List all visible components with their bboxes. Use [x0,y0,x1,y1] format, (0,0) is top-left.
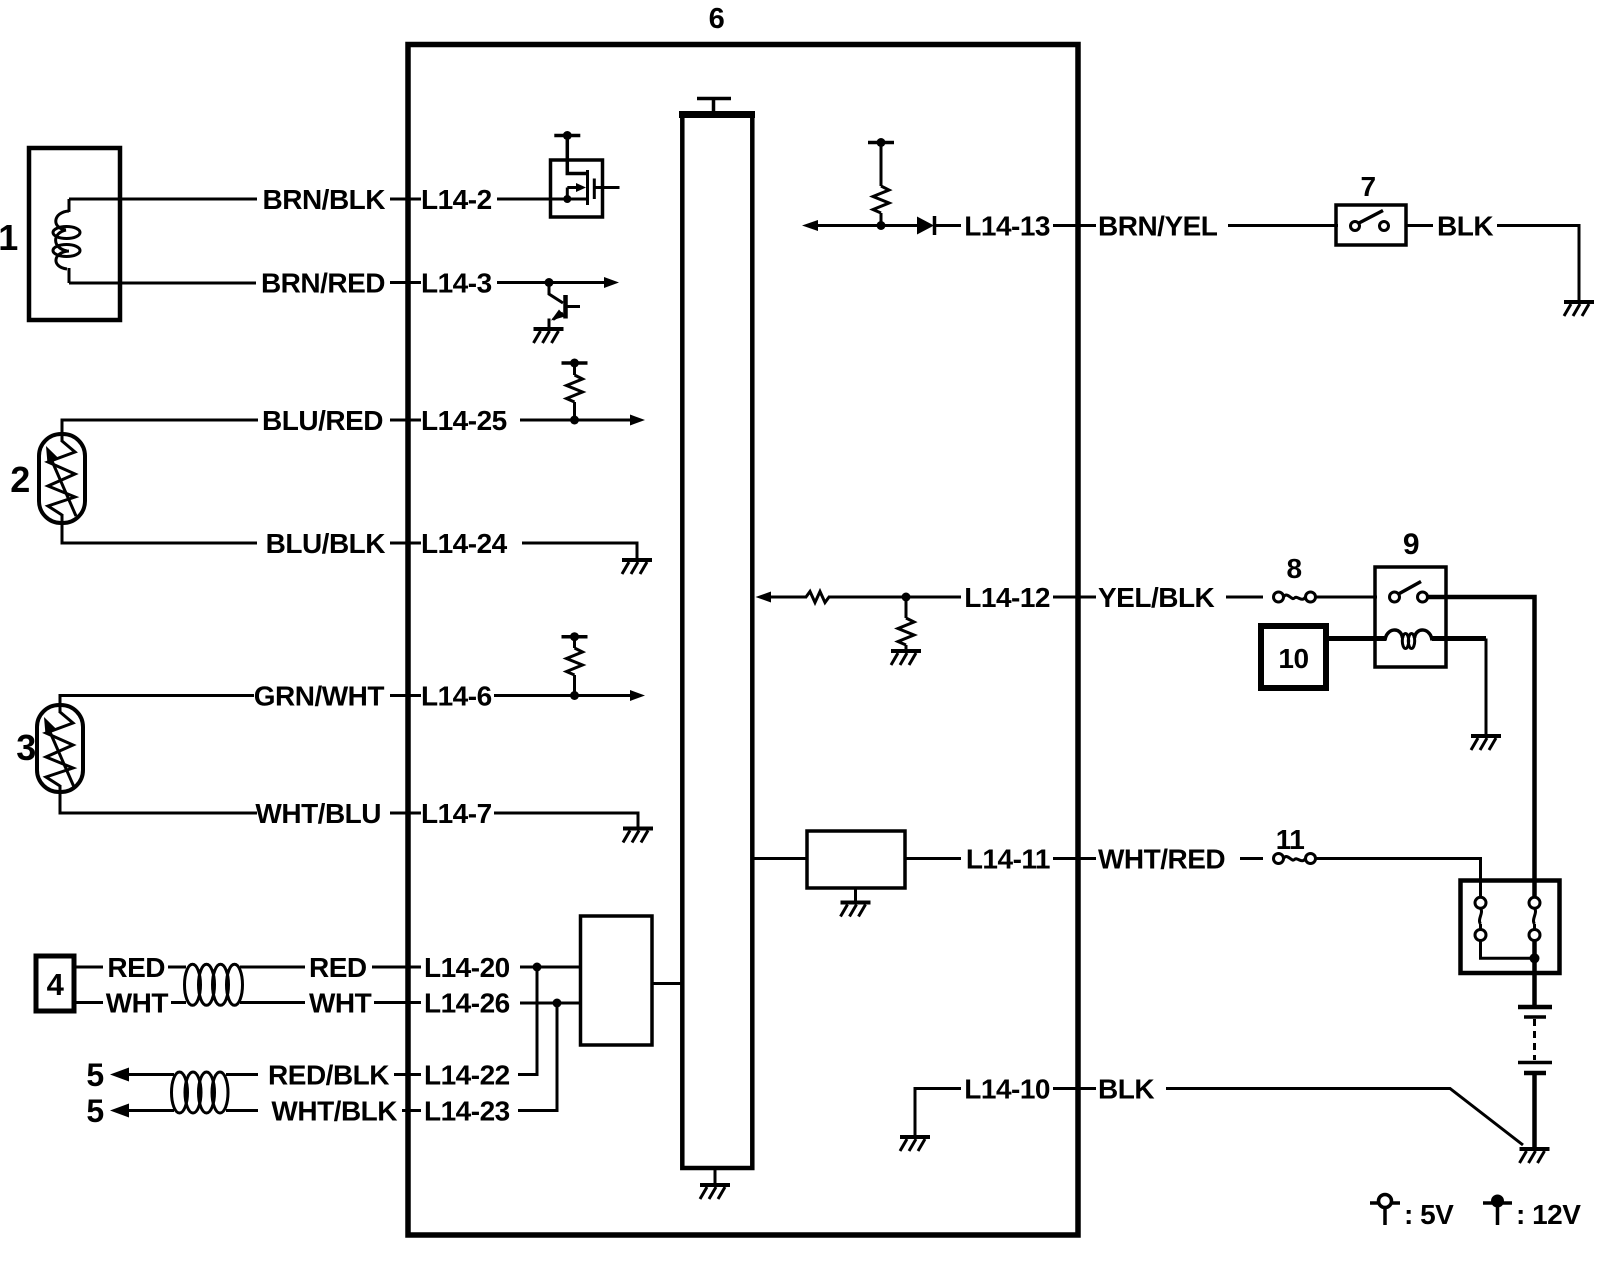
thermistor 3 capsule [37,705,83,792]
wire BLU/BLK stub into box 6 [390,542,421,545]
wire WHT/BLK from twisted pair [226,1109,258,1112]
svg-text:BLK: BLK [1437,211,1493,242]
svg-text:5: 5 [86,1093,103,1129]
twisted pair component 4 [185,964,201,1005]
wire thermistor 3 bottom lead (WHT/BLU) [60,785,257,813]
wire WHT/BLK into box 6 (L14-23) [402,1109,421,1112]
resistor above L14-25 [573,363,576,375]
bus top T terminal [697,99,731,113]
box 10 [1261,626,1326,688]
inline resistor on L14-12 [806,592,829,603]
wire BLK from L14-10 to battery ground [1166,1089,1523,1146]
MOSFET cell box [551,160,603,217]
ground at battery [1520,1149,1550,1163]
svg-text:RED/BLK: RED/BLK [268,1060,389,1091]
wire thermistor 3 top lead (GRN/WHT) [60,696,254,714]
svg-text:5: 5 [86,1057,103,1093]
wire diode to L14-13 label [936,224,961,227]
battery [1518,1005,1552,1010]
wire amplifier box to bus [652,982,682,985]
switch 7 contacts [1351,222,1360,231]
svg-text:2: 2 [10,459,30,500]
wire L14-24 to ground [522,543,637,558]
relay 9 box [1375,567,1446,667]
relay 9 coil [1385,630,1432,641]
svg-text:L14-13: L14-13 [964,211,1050,242]
wire BRN/YEL to switch 7 [1228,224,1338,227]
svg-text:L14-6: L14-6 [421,681,492,712]
wire MOSFET drain stub [594,186,619,189]
ground at L14-24 [622,560,652,574]
legend 5V symbol [1370,1203,1400,1225]
ground under bus bar [714,1168,717,1184]
wire bus to driver box [753,857,807,860]
wire L14-12 out of box 6 [1053,596,1096,599]
svg-text:L14-10: L14-10 [964,1074,1050,1105]
wire RED twisted pair to label [240,966,305,969]
wire battery to ground [1532,1075,1537,1148]
wire coil top stub [68,199,71,212]
wire L14-10 to ground [915,1089,961,1136]
svg-text:L14-26: L14-26 [424,988,510,1019]
svg-text:YEL/BLK: YEL/BLK [1098,582,1215,613]
driver box near L14-11 [807,831,905,888]
legend 12V symbol [1483,1203,1512,1225]
thermistor 2 resistor zigzag [48,441,75,515]
wire L14-11 out of box 6 [1053,857,1096,860]
wire thermistor 2 bottom lead (BLU/BLK) [62,514,257,543]
component 1 (sensor box) [29,148,120,320]
wire BRN/RED stub into box 6 [390,281,421,284]
node L14-26 junction [553,999,562,1008]
svg-text:WHT: WHT [106,988,169,1019]
svg-text:RED: RED [309,952,367,983]
connector right pin [1529,897,1540,908]
component 4 box [36,956,74,1011]
resistor above L14-6 [573,637,576,648]
wire L14-3 with arrow [497,281,606,284]
svg-text:WHT/RED: WHT/RED [1098,844,1225,875]
ground at transistor emitter [534,329,564,343]
connector box at battery [1461,881,1560,974]
resistor above L14-13 [880,143,883,187]
node L14-12 junction [902,593,911,602]
svg-text:BRN/BLK: BRN/BLK [263,184,386,215]
wire coil bottom stub [68,268,71,283]
svg-text:9: 9 [1403,528,1419,561]
wire switch 7 to BLK label [1406,224,1433,227]
12V supply above resistor L14-6 [562,632,588,641]
12V supply above MOSFET [554,131,580,140]
wire L14-12 with left arrow into bus [770,596,807,599]
12V supply above resistor L14-13 [868,138,894,147]
wire L14-25 with arrow [520,419,632,422]
arrow to component 5 upper [126,1073,174,1076]
twisted pair component 5 [172,1072,188,1113]
ground at BLK switch 7 [1564,302,1594,316]
wire fuse 11 to connector [1316,859,1481,898]
svg-text:L14-23: L14-23 [424,1096,510,1127]
svg-text:4: 4 [47,967,65,1002]
node L14-6 junction [570,691,579,700]
svg-text:1: 1 [0,217,18,258]
node L14-20 junction [533,963,542,972]
svg-text:BLU/RED: BLU/RED [262,405,383,436]
svg-text:L14-2: L14-2 [421,184,492,215]
wire BLU/RED stub into box 6 [390,419,421,422]
arrow to component 5 lower [126,1109,174,1112]
thermistor 3 resistor zigzag [46,712,73,786]
svg-text:L14-20: L14-20 [424,952,510,983]
wire WHT to twisted pair [171,1001,186,1004]
transistor at L14-3 [549,283,580,329]
wire BRN/BLK from component 1 [69,198,257,201]
wire L14-20 to amplifier box [520,966,581,969]
node connector junction [1530,953,1540,963]
wire L14-6 with arrow [494,694,632,697]
MOSFET source stem from 12V [567,136,586,174]
wire relay 9 switch to connector [1427,597,1535,898]
switch 7 box [1336,205,1406,245]
svg-text:GRN/WHT: GRN/WHT [254,681,385,712]
wire WHT/BLU stub into box 6 [390,812,421,815]
diode at L14-13 [917,217,934,235]
svg-text:L14-11: L14-11 [966,844,1050,875]
fuse 11 [1274,854,1316,864]
svg-text:BLU/BLK: BLU/BLK [266,528,386,559]
svg-text:11: 11 [1276,824,1305,855]
svg-text:WHT: WHT [309,988,372,1019]
svg-text:BRN/YEL: BRN/YEL [1098,211,1218,242]
relay 9 switch contacts [1390,592,1400,602]
wire WHT from component 4 [74,1001,103,1004]
wire relay coil to ground [1432,636,1486,641]
wire WHT twisted pair to label [240,1001,305,1004]
resistor below L14-12 [905,597,908,618]
wire L14-2 to MOSFET [497,198,552,201]
svg-text:8: 8 [1286,553,1301,584]
svg-text:6: 6 [709,3,725,35]
fuse 8 [1274,592,1316,602]
node L14-25 junction [570,416,579,425]
svg-text:3: 3 [16,727,36,768]
wire RED from component 4 [74,966,103,969]
wire RED/BLK into box 6 (L14-22) [394,1073,421,1076]
svg-text:: 12V: : 12V [1516,1199,1581,1230]
wire L14-23 riser [518,1003,557,1111]
thermistor 2 arrow [52,461,76,516]
wire L14-7 to ground [494,813,638,827]
svg-text:BRN/RED: BRN/RED [261,268,385,299]
connector left pin [1475,897,1486,908]
svg-text:L14-24: L14-24 [421,528,508,559]
svg-text:L14-22: L14-22 [424,1060,510,1091]
wire BLK to ground [1497,226,1579,301]
wire L14-22 riser [518,967,537,1075]
wire RED into box 6 (L14-20) [372,966,421,969]
wire GRN/WHT stub into box 6 [390,694,421,697]
wire L14-10 out of box 6 [1053,1087,1096,1090]
svg-text:L14-25: L14-25 [421,405,507,436]
wire WHT into box 6 (L14-26) [374,1001,421,1004]
12V supply above resistor [562,359,588,368]
wire fuse 8 to relay 9 [1316,596,1377,599]
ground below L14-12 resistor [891,651,921,665]
node L14-3 junction [545,278,554,287]
wire BRN/BLK stub into box 6 [390,198,421,201]
wire L14-26 to amplifier box [520,1002,581,1005]
amplifier box near L14-20 [581,916,653,1045]
wire L14-13 with left arrow [816,224,918,227]
svg-text:WHT/BLK: WHT/BLK [271,1096,397,1127]
wire thermistor 2 top lead [62,420,258,442]
wire BRN/RED from component 1 [69,282,256,285]
svg-text:RED: RED [107,952,165,983]
ground at L14-10 [900,1137,930,1151]
wire WHT/RED to fuse 11 [1240,857,1263,860]
ECU box 6 [408,45,1078,1236]
ground at relay 9 coil [1471,736,1501,750]
wire RED/BLK from twisted pair [226,1073,258,1076]
MOSFET symbol [552,170,594,205]
wire YEL/BLK to fuse 8 [1226,596,1263,599]
wire RED to twisted pair [168,966,186,969]
svg-text:10: 10 [1278,643,1308,674]
wire driver box to L14-11 [905,857,961,860]
node L14-13 junction [877,221,886,230]
inductor coil of component 1 [56,211,69,269]
thermistor 2 capsule [39,434,85,523]
svg-text:WHT/BLU: WHT/BLU [255,798,381,829]
wire box 10 to relay coil [1326,636,1386,641]
svg-text:: 5V: : 5V [1404,1199,1454,1230]
ground at L14-7 [623,829,653,843]
thermistor 3 arrow [50,732,74,787]
wire L14-13 out of box 6 [1053,224,1096,227]
ground under driver box [854,888,857,901]
svg-text:L14-12: L14-12 [964,582,1050,613]
bus bar inside box 6 [682,115,752,1169]
svg-text:L14-7: L14-7 [421,798,492,829]
svg-text:7: 7 [1360,171,1375,202]
bus bar thick top edge [679,111,755,118]
svg-text:BLK: BLK [1098,1074,1154,1105]
svg-text:L14-3: L14-3 [421,268,492,299]
